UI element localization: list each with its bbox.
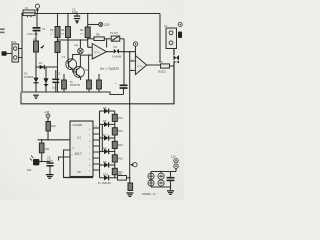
LED D5 [30, 156, 42, 166]
svg-text:1N4148: 1N4148 [112, 55, 122, 59]
wire right edge drop [159, 14, 161, 63]
svg-text:BU1: BU1 [11, 40, 17, 44]
capacitor C4 bottom row [52, 70, 61, 92]
svg-text:D1: D1 [39, 61, 43, 65]
connector K2 output [164, 24, 177, 49]
wire into IC [38, 139, 71, 141]
capacitor C7 [167, 172, 175, 191]
diode D4 pair [112, 49, 122, 59]
IC left stubs [59, 150, 71, 178]
terminal out right [130, 104, 137, 183]
terminal 12V stub [88, 22, 111, 27]
svg-text:C3: C3 [57, 72, 61, 76]
trimmer P1 [104, 31, 124, 41]
svg-text:R13: R13 [118, 116, 123, 120]
terminals 12V bottom right [171, 155, 178, 172]
diode D3 [43, 67, 48, 92]
IC right pins [93, 111, 102, 178]
resistor R18 row 6 [118, 176, 130, 181]
mosfet T3 [174, 49, 180, 104]
trimmer wiper stub [106, 39, 108, 48]
wire bottom return rail [21, 61, 174, 104]
transistor T1 [66, 38, 80, 70]
wire mid row [58, 39, 88, 41]
svg-text:CD: CD [77, 170, 81, 174]
svg-text:R10: R10 [51, 124, 56, 128]
transistor T2 [73, 55, 85, 81]
diode D9 row 5 [100, 162, 115, 167]
svg-text:4017: 4017 [75, 152, 82, 156]
capacitor C2 to ground [72, 8, 80, 25]
diode D2 [33, 67, 38, 92]
svg-text:La1: La1 [74, 43, 79, 47]
IC pin numbers [72, 126, 99, 173]
fuse F1 [23, 6, 35, 17]
wire ground rail [22, 92, 124, 95]
svg-text:R2: R2 [50, 28, 54, 32]
svg-text:12V: 12V [104, 23, 111, 27]
resistor R4 [80, 14, 90, 38]
cell B1 [148, 173, 154, 179]
resistor R15 [112, 138, 117, 152]
ground lower left [46, 174, 54, 179]
op-amp OP1b [130, 56, 161, 75]
svg-text:D4: D4 [114, 45, 118, 49]
svg-text:D2: D2 [24, 72, 28, 76]
svg-text:K2: K2 [164, 24, 168, 28]
op-amp OP1a [80, 44, 113, 60]
diode D6 row 2 [100, 122, 115, 127]
resistor R5 lower left [55, 38, 60, 92]
diode D1 [36, 61, 58, 69]
svg-text:R16: R16 [118, 156, 123, 160]
svg-text:HV = TA2870: HV = TA2870 [100, 67, 119, 71]
resistor R10 [46, 122, 56, 140]
svg-text:U2102B: U2102B [73, 123, 83, 127]
svg-text:OP1b: OP1b [137, 66, 143, 68]
ground under rail [33, 95, 39, 100]
svg-text:P1 4k7: P1 4k7 [110, 31, 119, 35]
wire top supply rail [22, 13, 160, 15]
diode D7 row 3 [100, 135, 115, 140]
resistor R11 [39, 140, 50, 162]
terminal +UB [44, 110, 50, 122]
resistor R8 feedback [88, 33, 105, 41]
ground battery [167, 190, 174, 195]
IC bottom stubs [64, 177, 94, 179]
terminal right top [178, 23, 182, 27]
scan margin marks left edge [0, 28, 5, 30]
ground right [126, 192, 133, 197]
cell B4 [158, 180, 164, 186]
svg-text:+UB: +UB [44, 110, 49, 114]
resistor R2 [50, 14, 60, 38]
svg-text:R15: R15 [118, 143, 123, 147]
resistor R3 [61, 14, 71, 38]
svg-text:5x 1N4148: 5x 1N4148 [98, 181, 111, 185]
diode D8 row 4 [100, 149, 115, 154]
capacitor C1 [27, 14, 46, 37]
svg-text:940682 - 11: 940682 - 11 [142, 192, 156, 196]
svg-text:12V: 12V [171, 155, 176, 159]
diode D10 row 6 [100, 175, 118, 180]
svg-text:R14: R14 [118, 129, 123, 133]
resistor R6 [62, 74, 67, 92]
resistor R8b [97, 74, 102, 92]
diode D5 row 1 [100, 108, 115, 113]
wire left vertical bus [21, 14, 23, 92]
resistor R1 [34, 31, 45, 67]
terminal +12V top [35, 4, 39, 13]
svg-text:1N4003: 1N4003 [24, 75, 34, 79]
resistor R7 [87, 55, 92, 92]
svg-text:D11: D11 [27, 168, 32, 172]
svg-text:BC547B: BC547B [70, 83, 80, 87]
svg-text:R9: R9 [159, 60, 163, 64]
svg-text:R11: R11 [45, 147, 50, 151]
resistor R16 [112, 152, 117, 166]
svg-text:OP1a: OP1a [94, 52, 100, 54]
svg-text:R1: R1 [34, 37, 38, 41]
lamp La1 [78, 40, 84, 54]
resistor R13 [112, 111, 117, 124]
resistor R18 [128, 183, 133, 191]
capacitor C5 [115, 82, 128, 95]
IC1 box [70, 121, 93, 177]
svg-text:IC1: IC1 [77, 136, 82, 140]
wire feedback node [119, 39, 136, 85]
svg-text:R3: R3 [61, 28, 65, 32]
svg-text:R4: R4 [80, 28, 84, 32]
resistor R14 [112, 124, 117, 138]
cell B3 [158, 173, 164, 179]
plug symbol left [2, 51, 13, 56]
terminal test point [133, 42, 137, 52]
svg-text:D10: D10 [103, 173, 108, 177]
node column R4 down [87, 38, 89, 48]
svg-text:R8: R8 [96, 33, 100, 37]
capacitor C6 [42, 156, 54, 175]
resistor R17 [112, 165, 117, 178]
resistor R9 [158, 60, 174, 74]
svg-text:470u 25V: 470u 25V [27, 32, 38, 36]
plug symbol right [178, 32, 182, 39]
svg-text:BUZ11: BUZ11 [158, 70, 166, 74]
paper background [0, 0, 184, 200]
battery pack [151, 172, 176, 188]
cell B2 [148, 180, 154, 186]
connector BU1 input [11, 40, 22, 62]
svg-text:C1: C1 [42, 27, 46, 31]
